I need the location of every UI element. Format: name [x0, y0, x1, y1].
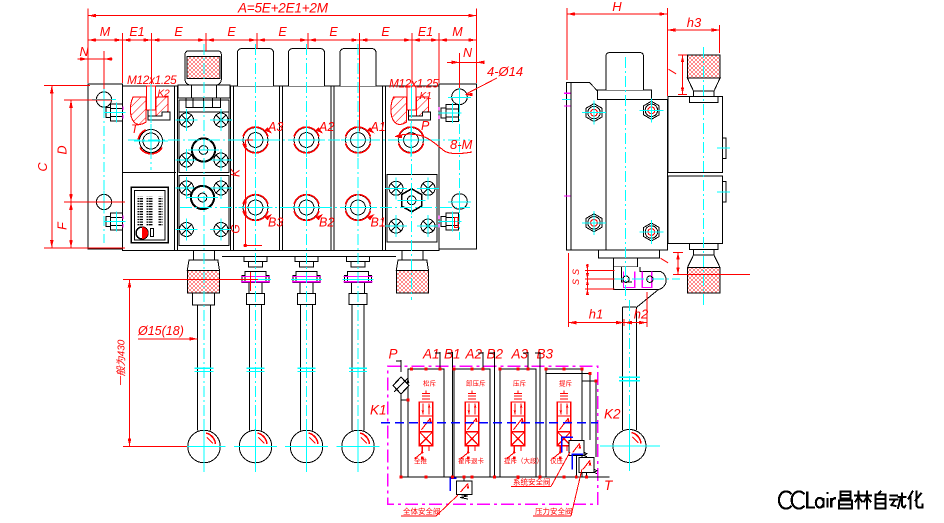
schematic port labels [389, 347, 554, 362]
label P [421, 119, 430, 133]
port T [134, 124, 168, 158]
lever rod 4 [349, 304, 367, 430]
section A upper center plug [188, 138, 219, 161]
port A3 [239, 123, 273, 157]
hydraulic schematic boundary box [388, 366, 598, 504]
port row centerline B [180, 207, 470, 209]
side top knob stack [688, 55, 721, 102]
section boundary lines [175, 86, 386, 251]
centerline T port vertical [150, 95, 152, 170]
svg-text:N: N [79, 45, 89, 59]
lever rod 3 fitting [291, 257, 322, 305]
svg-text:G: G [229, 224, 243, 233]
dimension K [229, 140, 254, 208]
bolt screw [210, 149, 232, 171]
svg-text:A=5E+2E1+2M: A=5E+2E1+2M [237, 1, 329, 16]
white caps on sections [237, 49, 376, 87]
section A lower center plug [187, 186, 218, 209]
svg-text:F: F [56, 221, 70, 230]
dimension l top [666, 55, 687, 94]
port B3 [239, 191, 273, 225]
side view cap stem flange [598, 90, 652, 100]
schematic unit enclosure rects [408, 369, 582, 477]
pilot line K1 K2 blue dashed [381, 422, 598, 424]
left plate mounting hole top [92, 88, 116, 111]
svg-text:全推: 全推 [414, 456, 428, 465]
port A1 [341, 123, 375, 157]
junction dots [400, 368, 598, 479]
left end plate [88, 84, 123, 249]
svg-text:压斥: 压斥 [513, 379, 527, 388]
valve unit 3 [507, 391, 525, 460]
side bonnet top block [668, 97, 730, 173]
port B2 [290, 191, 324, 225]
right plate bolt top [439, 103, 462, 123]
port A2 [290, 123, 324, 157]
svg-text:A1: A1 [422, 347, 440, 362]
svg-text:松斥: 松斥 [423, 379, 437, 388]
valve unit 2 [461, 391, 479, 460]
side lever rod [619, 307, 640, 430]
label T [604, 478, 614, 493]
dimension s pins [571, 264, 615, 295]
dimension A=5E+2E1+2M [88, 1, 476, 18]
svg-text:T: T [604, 478, 614, 493]
svg-text:S: S [571, 269, 581, 275]
svg-text:P: P [389, 347, 398, 362]
port P [394, 123, 428, 157]
lever rod 2 fitting [240, 257, 271, 305]
logo text CCLair [779, 491, 836, 508]
svg-text:C: C [36, 162, 50, 172]
port row centerline A [128, 139, 470, 141]
port labels A3 A2 A1 [265, 120, 386, 134]
dimension C [36, 85, 125, 248]
left plate mounting hole bottom [92, 191, 116, 214]
svg-text:A2: A2 [465, 347, 483, 362]
schematic port stubs [396, 352, 540, 477]
side view main body [606, 100, 667, 250]
left relief knob stack [187, 250, 219, 305]
svg-text:H: H [612, 0, 622, 14]
svg-text:B2: B2 [487, 347, 504, 362]
side centerlines [612, 47, 704, 430]
svg-text:D: D [56, 145, 70, 154]
svg-text:翟斥退卡: 翟斥退卡 [458, 456, 485, 465]
svg-text:B3: B3 [268, 216, 283, 230]
bolt screw [176, 149, 198, 171]
centerline left plate [103, 90, 105, 243]
dimension phi15(18) [137, 324, 198, 341]
bolt screw [385, 177, 407, 199]
ball knob 4 [337, 421, 380, 472]
dimension N right [447, 46, 485, 88]
svg-text:h3: h3 [687, 15, 702, 30]
section A lower bolt block [179, 176, 229, 246]
label M12x1.25 left [127, 73, 177, 100]
lever rod 1 [195, 305, 214, 431]
side ball knob [600, 424, 660, 471]
label T [131, 122, 140, 136]
ball knob 2 [234, 421, 277, 472]
svg-text:压力安全阀: 压力安全阀 [535, 506, 573, 516]
svg-text:K2: K2 [604, 407, 621, 422]
bolt screw [210, 109, 232, 131]
schematic right plumbing [536, 369, 596, 477]
left plate bolt bottom [104, 212, 126, 232]
label K1 [370, 403, 387, 418]
bolt screw [385, 215, 407, 237]
schematic unit top labels [423, 379, 573, 388]
valve body sections outline [123, 86, 440, 251]
dimension chain M E1 E E E E E1 M [88, 25, 476, 44]
svg-text:M12x1.25: M12x1.25 [127, 73, 177, 87]
extension lines overall dim [88, 9, 476, 132]
label 8-M with leader [394, 134, 473, 154]
ball knob 1 [183, 421, 226, 472]
label K2 [604, 407, 621, 422]
leader label relief 1 [511, 452, 570, 487]
svg-text:E1: E1 [418, 25, 433, 39]
svg-text:M: M [100, 25, 111, 39]
relief valve right 1 [562, 437, 587, 457]
leader label main relief [401, 495, 458, 516]
side bottom step [614, 258, 638, 267]
nameplate [131, 187, 168, 243]
dimension l bottom [658, 252, 750, 274]
relief valve right 2 [572, 454, 597, 474]
dimension h3 [667, 15, 719, 53]
label 4-phi14 with leader [465, 64, 524, 96]
bolt screw [176, 109, 198, 131]
svg-text:8-M: 8-M [450, 137, 473, 152]
bolt screw [176, 219, 198, 241]
section centerlines vertical [204, 44, 412, 470]
svg-text:B3: B3 [537, 347, 554, 362]
svg-text:N: N [463, 46, 473, 60]
svg-text:K2: K2 [158, 89, 171, 100]
svg-text:E: E [174, 25, 183, 39]
svg-text:B2: B2 [319, 216, 334, 230]
schematic unit bottom labels [414, 456, 564, 465]
dimension D [56, 100, 126, 202]
dimension G [229, 208, 263, 248]
bolt screw [417, 215, 439, 237]
side view mounting flange strip [562, 83, 575, 251]
dimension F [56, 202, 73, 248]
svg-text:Ø15(18): Ø15(18) [137, 324, 184, 338]
svg-text:卸压斥: 卸压斥 [466, 379, 486, 388]
svg-text:提斥（大段）: 提斥（大段） [504, 456, 543, 465]
svg-text:M12x1.25: M12x1.25 [389, 77, 439, 91]
valve unit 4 [553, 391, 571, 460]
stud K1 M12x1.25 right [391, 84, 431, 124]
side body bolts [582, 101, 606, 125]
svg-text:P: P [421, 119, 430, 133]
side bottom flange [598, 250, 659, 258]
bottom return bus [401, 476, 610, 478]
inlet section mid line [123, 172, 177, 174]
lever rod 4 fitting [343, 257, 374, 305]
bolt screw [210, 177, 232, 199]
pump inlet symbol [393, 377, 409, 477]
svg-text:系统安全阀: 系统安全阀 [513, 477, 551, 487]
bolt screw [210, 219, 232, 241]
ball knob 3 [285, 421, 328, 472]
dimension h1 h2 [568, 253, 649, 327]
svg-text:h2: h2 [634, 307, 649, 322]
side view cap stem [606, 53, 643, 90]
svg-text:E: E [329, 25, 338, 39]
bolt screw [417, 177, 439, 199]
svg-text:A3: A3 [511, 347, 529, 362]
side bonnet bottom block [668, 176, 730, 244]
svg-text:K1: K1 [420, 91, 432, 102]
bolt screw [176, 177, 198, 199]
lever rod 2 [247, 304, 265, 430]
section E lower bolt block [387, 175, 437, 243]
svg-text:全体安全阀: 全体安全阀 [403, 506, 441, 516]
hatched relief cap top left [178, 51, 230, 108]
valve unit 1 [415, 391, 433, 460]
centerline right plate [459, 88, 461, 240]
label M12x1.25 right [389, 77, 439, 103]
port labels B3 B2 B1 [265, 214, 386, 230]
svg-text:4-Ø14: 4-Ø14 [487, 64, 523, 79]
red mark rod2 [249, 272, 251, 291]
side view plate body with chamfer [571, 83, 606, 251]
svg-text:l: l [658, 257, 672, 265]
svg-text:E: E [381, 25, 390, 39]
svg-text:E: E [278, 25, 287, 39]
right plate mounting hole top [448, 87, 471, 109]
right end plate [439, 84, 477, 249]
section A upper bolt block [179, 100, 229, 173]
section E center hex plug [398, 186, 426, 214]
right plate bolt bottom [439, 212, 462, 232]
svg-text:K: K [229, 168, 243, 177]
body bottom cover strip [222, 256, 396, 258]
lever rod 3 [298, 304, 316, 430]
side bottom knob stack [688, 244, 721, 293]
left plate bolt top [104, 103, 126, 123]
svg-text:K1: K1 [370, 403, 387, 418]
svg-text:E: E [227, 25, 236, 39]
stud K2 M12x1.25 left [130, 84, 170, 124]
svg-text:E1: E1 [129, 25, 144, 39]
dimension H [567, 0, 667, 96]
svg-text:提斥: 提斥 [559, 379, 573, 388]
dimension 430 vertical [116, 280, 259, 447]
main relief valve bottom [450, 477, 472, 499]
right relief knob stack [396, 250, 428, 293]
port B1 [341, 191, 375, 225]
logo text chinese [839, 492, 923, 509]
svg-text:仅压: 仅压 [550, 456, 564, 465]
svg-text:S: S [571, 279, 581, 285]
right plate mounting hole bottom [448, 191, 471, 213]
dimension N left [78, 45, 113, 89]
right plate bolt red mark [455, 218, 459, 228]
side clevis bracket [614, 267, 667, 307]
svg-text:B1: B1 [371, 216, 386, 230]
svg-text:h1: h1 [589, 307, 603, 322]
svg-text:一般为430: 一般为430 [116, 339, 128, 386]
svg-text:M: M [452, 25, 463, 39]
leader label relief 2 [533, 469, 582, 516]
